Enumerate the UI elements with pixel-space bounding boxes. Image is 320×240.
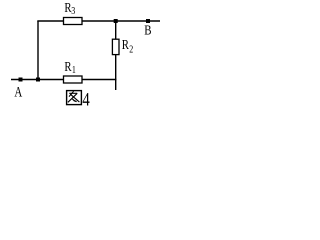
node A terminal dot bbox=[19, 78, 23, 82]
svg-text:B: B bbox=[144, 22, 151, 38]
wire: top rail left segment (corner to R3) bbox=[37, 20, 64, 22]
svg-text:4: 4 bbox=[82, 89, 90, 110]
wire: R2 branch upper lead bbox=[115, 21, 117, 40]
wire: R2 branch lower lead crossing bottom rail bbox=[115, 55, 117, 90]
svg-text:A: A bbox=[14, 84, 22, 100]
resistor R3 bbox=[64, 0, 83, 25]
junction: top node joining R2 branch bbox=[114, 19, 118, 23]
svg-text:2: 2 bbox=[129, 44, 133, 55]
node B terminal dot bbox=[146, 19, 150, 23]
resistor R2 bbox=[112, 37, 133, 55]
wire: bottom rail left segment (A terminal to R1) bbox=[11, 79, 64, 81]
resistor R1 bbox=[64, 59, 83, 83]
figure caption: hand-drawn CJK glyph "tu" (figure) bbox=[67, 91, 82, 105]
junction: bottom node joining left riser bbox=[36, 78, 40, 82]
wire: bottom rail right segment (R1 to R2 branch) bbox=[82, 79, 116, 81]
wire: top rail right segment (R3 to right end past B) bbox=[82, 20, 160, 22]
svg-text:1: 1 bbox=[72, 64, 76, 75]
svg-text:3: 3 bbox=[71, 5, 75, 16]
wire: left vertical riser from node A row up to top rail bbox=[37, 21, 39, 80]
